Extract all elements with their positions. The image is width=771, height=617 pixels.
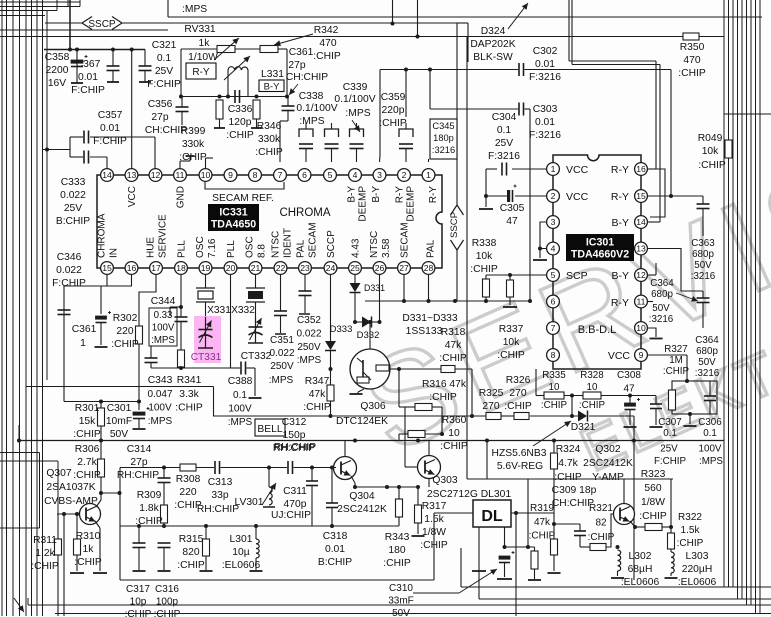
capacitor C305 electrolytic <box>515 195 547 197</box>
svg-text::CHIP: :CHIP <box>379 118 407 129</box>
svg-text:Q302: Q302 <box>595 444 620 455</box>
resistor R346 <box>253 100 260 119</box>
svg-text::CHIP: :CHIP <box>639 511 667 522</box>
svg-text:16: 16 <box>636 164 646 174</box>
crystal X331 <box>205 275 207 289</box>
svg-text:L303: L303 <box>686 551 709 562</box>
svg-text:1: 1 <box>551 164 556 174</box>
svg-text:R347: R347 <box>305 376 330 387</box>
capacitor C317 <box>138 526 140 543</box>
capacitor C316 <box>163 526 165 543</box>
IC301 label box <box>566 234 634 261</box>
main horizontal wire y440 <box>19 440 724 442</box>
svg-text:C301: C301 <box>107 403 132 414</box>
svg-text:50V: 50V <box>694 260 712 271</box>
thick vertical into C358 rail <box>69 0 71 50</box>
variable inductor L331 <box>227 70 229 97</box>
pin3-pin4 strap with ground <box>540 222 547 249</box>
corner at pin10 <box>205 158 207 169</box>
svg-text:C364: C364 <box>650 278 674 289</box>
svg-text:3.58: 3.58 <box>381 238 392 258</box>
svg-text:100V: 100V <box>699 444 722 455</box>
svg-text:26: 26 <box>375 263 385 273</box>
svg-text:100V: 100V <box>228 403 252 414</box>
svg-text:R321: R321 <box>589 503 613 514</box>
svg-text:8.8: 8.8 <box>257 244 268 258</box>
diode D332 <box>379 275 381 323</box>
svg-text:50V: 50V <box>110 429 128 440</box>
svg-text:R319: R319 <box>530 503 554 514</box>
svg-text:OSC: OSC <box>195 236 206 258</box>
capacitor C307 <box>655 396 657 405</box>
inductor L303 <box>670 549 672 552</box>
svg-text:R335: R335 <box>542 370 566 381</box>
svg-text:14: 14 <box>102 170 112 180</box>
svg-text:C358: C358 <box>45 52 70 63</box>
diode D333 <box>330 275 332 342</box>
svg-text:2200: 2200 <box>46 65 69 76</box>
svg-text::CHIP: :CHIP <box>383 558 411 569</box>
svg-text:L301: L301 <box>230 534 253 545</box>
svg-text:F:3216: F:3216 <box>529 72 561 83</box>
svg-text::CHIP: :CHIP <box>439 353 467 364</box>
svg-text:C321: C321 <box>152 40 177 51</box>
svg-text:C343: C343 <box>148 375 173 386</box>
svg-text:27p: 27p <box>130 457 147 468</box>
svg-text:50V: 50V <box>392 608 410 617</box>
svg-text:13: 13 <box>127 170 137 180</box>
svg-text:0.022: 0.022 <box>296 328 321 339</box>
svg-text:B.B-D.L: B.B-D.L <box>578 324 617 336</box>
resistor R360 <box>440 432 444 436</box>
svg-text:1: 1 <box>80 338 86 349</box>
wire y526 <box>120 525 399 527</box>
svg-text:C363: C363 <box>691 238 715 249</box>
svg-text:0.1: 0.1 <box>497 125 512 136</box>
svg-text:0.1/100V: 0.1/100V <box>334 94 375 105</box>
svg-text::CHIP: :CHIP <box>677 538 704 549</box>
svg-text::CHIP: :CHIP <box>588 532 615 543</box>
capacitor C352 <box>304 275 306 292</box>
C359 vertical line <box>379 70 381 156</box>
svg-text::CHIP: :CHIP <box>111 339 139 350</box>
resistor R306 <box>100 441 102 460</box>
svg-text:Q307: Q307 <box>46 468 71 479</box>
DL grounds <box>478 527 480 599</box>
svg-text::CHIP: :CHIP <box>73 470 101 481</box>
svg-text:R324: R324 <box>556 444 581 455</box>
svg-text:DEEMP: DEEMP <box>406 186 417 222</box>
svg-text:C309 18p: C309 18p <box>552 485 597 496</box>
pin17 wire through R302 <box>139 275 156 327</box>
wire y487 <box>355 486 418 488</box>
wire y301 <box>365 300 530 302</box>
boxed label R-Y <box>186 63 216 79</box>
svg-text:R328: R328 <box>580 370 604 381</box>
pin16 to pin14 wire <box>648 169 666 217</box>
svg-text:15: 15 <box>102 263 112 273</box>
svg-text:5.6V-REG: 5.6V-REG <box>497 461 543 472</box>
svg-text:SECAM REF.: SECAM REF. <box>212 193 274 204</box>
svg-text:0.01: 0.01 <box>325 544 345 555</box>
svg-text:VCC: VCC <box>608 350 631 362</box>
capacitor C357 <box>45 148 49 152</box>
svg-text:R360: R360 <box>442 415 467 426</box>
right bus wires <box>723 0 725 587</box>
cap right of C311 <box>311 468 313 482</box>
wire y386.5 <box>26 386 214 388</box>
svg-text::CHIP: :CHIP <box>663 366 690 377</box>
pin16 wire to C361 <box>101 275 132 315</box>
svg-text:R327: R327 <box>664 344 687 355</box>
svg-text:Q304: Q304 <box>349 491 374 502</box>
svg-text:25V: 25V <box>660 444 678 455</box>
svg-text:X331: X331 <box>207 305 231 316</box>
svg-text::EL0606: :EL0606 <box>621 577 660 588</box>
svg-text:RV331: RV331 <box>184 24 216 35</box>
svg-text:SECAM: SECAM <box>400 222 411 258</box>
svg-text:CT331: CT331 <box>191 352 222 363</box>
svg-text:R301: R301 <box>75 403 100 414</box>
magenta highlight CT331 <box>194 316 221 363</box>
capacitor C358 <box>76 50 78 61</box>
svg-text:10mF: 10mF <box>106 416 132 427</box>
bottom edge of box <box>120 579 434 581</box>
svg-text:C317: C317 <box>126 584 150 595</box>
svg-text:2: 2 <box>402 170 407 180</box>
svg-text:X332: X332 <box>231 305 255 316</box>
svg-text:R337: R337 <box>499 324 524 335</box>
svg-text:17: 17 <box>151 263 161 273</box>
capacitor C361 electrolytic <box>96 316 107 319</box>
svg-text::CHIP: :CHIP <box>497 350 525 361</box>
watermark SERVIS ELEKTRONI <box>342 130 771 484</box>
svg-text:RH:CHIP: RH:CHIP <box>273 443 315 454</box>
svg-text:10: 10 <box>201 170 211 180</box>
capacitor C388 <box>231 367 241 369</box>
svg-text:R315: R315 <box>179 534 204 545</box>
svg-text:28: 28 <box>424 263 434 273</box>
emitter resistor <box>635 526 645 528</box>
svg-text:SCP: SCP <box>566 270 588 282</box>
capacitor C333 <box>70 156 83 158</box>
svg-text::CHIP: :CHIP <box>255 147 283 158</box>
diode D331 <box>354 275 356 284</box>
svg-text:D332: D332 <box>357 330 380 341</box>
resistor R301 <box>100 402 102 409</box>
svg-text:16V: 16V <box>48 78 66 89</box>
pin15 wire down-left <box>64 275 107 402</box>
trimmer RV331 <box>181 48 217 50</box>
svg-text:470: 470 <box>683 55 700 66</box>
svg-text:CT332: CT332 <box>241 351 272 362</box>
svg-text:16: 16 <box>127 263 137 273</box>
svg-text:C338: C338 <box>299 91 324 102</box>
svg-text:R-Y: R-Y <box>192 67 210 78</box>
svg-text:NTSC: NTSC <box>369 231 380 258</box>
svg-text::MPS: :MPS <box>269 375 294 386</box>
IC331 label box <box>208 204 259 231</box>
svg-text:OSC: OSC <box>245 236 256 258</box>
svg-text:CH:CHIP: CH:CHIP <box>286 72 328 83</box>
svg-text:R342: R342 <box>314 25 339 36</box>
svg-text:180p: 180p <box>433 133 454 143</box>
svg-text::CHIP: :CHIP <box>177 560 205 571</box>
resistor R316 <box>398 369 400 407</box>
svg-text:B-Y: B-Y <box>371 186 382 203</box>
pin10 ground <box>648 328 657 337</box>
svg-text:PLL: PLL <box>177 240 188 258</box>
svg-text::CHIP: :CHIP <box>554 472 582 483</box>
svg-text:F:3216: F:3216 <box>529 130 561 141</box>
svg-text:4: 4 <box>353 170 358 180</box>
capacitor C318 <box>331 468 333 503</box>
R338 network at SCP pin5 <box>486 274 547 276</box>
svg-text:25V: 25V <box>64 203 82 214</box>
resistor R309 <box>161 505 168 523</box>
svg-text:10: 10 <box>549 382 560 393</box>
resistor R318 <box>441 366 455 373</box>
svg-text:D333: D333 <box>330 324 353 335</box>
svg-text:22: 22 <box>276 263 286 273</box>
Q307 base wire <box>57 513 80 515</box>
svg-text:680p: 680p <box>696 346 718 357</box>
box left edge <box>119 468 121 581</box>
wire vcc rail y49.5 <box>44 49 145 51</box>
svg-text::CHIP: :CHIP <box>440 441 468 452</box>
svg-text:330k: 330k <box>258 134 281 145</box>
svg-text:0.1: 0.1 <box>703 428 717 439</box>
svg-text:18: 18 <box>176 263 186 273</box>
svg-text:C351: C351 <box>270 335 294 346</box>
wire pin27 pin28 down <box>403 275 405 302</box>
capacitor C301 electrolytic <box>138 402 140 411</box>
svg-text::EL0606: :EL0606 <box>678 577 717 588</box>
svg-text:5: 5 <box>328 170 333 180</box>
capacitor C302 <box>380 69 518 71</box>
svg-text:1.2k: 1.2k <box>35 548 55 559</box>
svg-text:220: 220 <box>179 487 196 498</box>
svg-text:PLL: PLL <box>226 240 237 258</box>
svg-text:F:CHIP: F:CHIP <box>52 278 86 289</box>
bottom bus lines <box>460 548 462 587</box>
pin18 wire and C344 <box>180 275 182 308</box>
resistor R343 <box>398 487 400 499</box>
SSCP flag <box>45 22 82 24</box>
svg-text::3216: :3216 <box>695 368 720 379</box>
wire VCC down to pin13 <box>131 50 133 169</box>
svg-text::MPS: :MPS <box>345 108 370 119</box>
svg-text:Q306: Q306 <box>360 401 385 412</box>
svg-text:R325: R325 <box>479 388 504 399</box>
svg-text:R322: R322 <box>678 512 702 523</box>
svg-text:180: 180 <box>388 545 405 556</box>
svg-text:8: 8 <box>253 170 258 180</box>
svg-text:680p: 680p <box>651 289 673 300</box>
resistor R350 <box>683 33 699 40</box>
wire long horiz y36.5 with R350 <box>0 36 683 38</box>
capacitor C364 <box>702 291 704 298</box>
svg-text:47: 47 <box>506 216 518 227</box>
svg-text:C336: C336 <box>228 104 253 115</box>
capacitor C338 <box>287 97 289 107</box>
svg-text::3216: :3216 <box>691 271 716 282</box>
svg-text:13: 13 <box>636 244 646 254</box>
svg-text:25: 25 <box>350 263 360 273</box>
svg-text:0.01: 0.01 <box>535 117 555 128</box>
R327 / C306 box <box>672 381 717 414</box>
svg-text:PAL: PAL <box>426 239 437 258</box>
svg-text:D331: D331 <box>364 283 385 293</box>
svg-text:10k: 10k <box>503 337 520 348</box>
transistor Q307 <box>80 504 101 525</box>
svg-text::CHIP: :CHIP <box>504 401 532 412</box>
svg-text:L331: L331 <box>261 69 284 80</box>
svg-text:2.7k: 2.7k <box>77 457 97 468</box>
svg-text:F:3216: F:3216 <box>488 151 520 162</box>
svg-text:SSCP: SSCP <box>449 212 460 238</box>
R335 R328 wire <box>536 395 544 397</box>
capacitor C343 <box>150 346 152 358</box>
resistor R337 <box>509 275 511 280</box>
svg-text:7.16: 7.16 <box>207 238 218 258</box>
svg-text:0.047: 0.047 <box>147 389 172 400</box>
svg-text:RH:CHIP: RH:CHIP <box>117 470 159 481</box>
svg-text:RH:CHIP: RH:CHIP <box>197 504 239 515</box>
svg-text:C345: C345 <box>432 121 454 131</box>
svg-text:VCC: VCC <box>127 186 138 207</box>
capacitor C303 <box>428 68 432 72</box>
wire y479 <box>467 478 673 480</box>
svg-text:1/10W: 1/10W <box>188 52 218 63</box>
svg-text:560: 560 <box>644 483 661 494</box>
resistor R399 <box>216 100 223 119</box>
svg-text:820: 820 <box>182 547 199 558</box>
capacitor C351 <box>280 275 282 312</box>
svg-text:L302: L302 <box>629 551 652 562</box>
svg-text:2SC2412K: 2SC2412K <box>583 458 633 469</box>
svg-text:VCC: VCC <box>566 164 589 176</box>
svg-text:PAL: PAL <box>296 239 307 258</box>
svg-text:270: 270 <box>482 401 499 412</box>
svg-text:330k: 330k <box>182 139 205 150</box>
svg-text:D324: D324 <box>481 26 506 37</box>
svg-text:47k: 47k <box>309 389 326 400</box>
svg-text::CHIP: :CHIP <box>678 68 706 79</box>
svg-text:F:CHIP: F:CHIP <box>93 136 127 147</box>
svg-text::CHIP: :CHIP <box>175 403 203 414</box>
svg-text::MPS: :MPS <box>151 335 175 346</box>
svg-text:R346: R346 <box>257 121 282 132</box>
svg-text::CHIP: :CHIP <box>698 160 726 171</box>
svg-text:R338: R338 <box>472 238 497 249</box>
svg-text:10k: 10k <box>476 251 493 262</box>
resistor R324 <box>553 441 555 454</box>
main wire y416 <box>213 415 486 417</box>
capacitor C308 electrolytic <box>629 396 631 404</box>
svg-text:33p: 33p <box>211 490 228 501</box>
svg-text:C339: C339 <box>343 82 368 93</box>
svg-text:7: 7 <box>278 170 283 180</box>
svg-text:7: 7 <box>551 323 556 333</box>
svg-text:50V: 50V <box>698 357 716 368</box>
svg-text:IC331: IC331 <box>219 207 247 219</box>
svg-text:R343: R343 <box>385 532 410 543</box>
svg-text:NTSC: NTSC <box>271 231 282 258</box>
svg-text:1k: 1k <box>83 544 95 555</box>
svg-text::3216: :3216 <box>432 145 455 155</box>
pin13 wire <box>648 249 704 292</box>
svg-text:220p: 220p <box>382 105 405 116</box>
svg-text:SERVICE: SERVICE <box>158 214 169 258</box>
svg-text:11: 11 <box>637 297 646 307</box>
svg-text::MPS: :MPS <box>299 116 324 127</box>
svg-text:19: 19 <box>201 263 211 273</box>
DL301 box <box>434 512 473 514</box>
Q307 collector down <box>95 521 100 528</box>
svg-text:27p: 27p <box>151 112 168 123</box>
svg-text:4.43: 4.43 <box>351 238 362 258</box>
svg-text:25V: 25V <box>495 138 513 149</box>
svg-text:680p: 680p <box>692 249 714 260</box>
svg-text:4: 4 <box>551 244 556 254</box>
svg-text:C361: C361 <box>72 324 97 335</box>
svg-text:0.022: 0.022 <box>56 265 82 276</box>
svg-text:IDENT: IDENT <box>283 228 294 258</box>
resistor R322 <box>668 533 675 549</box>
svg-text:R302: R302 <box>113 313 138 324</box>
R049 resistor on bus <box>725 140 732 158</box>
svg-text:SCCP: SCCP <box>326 230 337 258</box>
svg-text::MPS: :MPS <box>182 4 207 15</box>
IC301 body <box>553 155 641 369</box>
svg-text:C305: C305 <box>500 203 525 214</box>
svg-text:C302: C302 <box>533 46 558 57</box>
svg-text:0.1: 0.1 <box>157 53 172 64</box>
left bus wires <box>1 0 3 616</box>
svg-text:DAP202K: DAP202K <box>470 39 515 50</box>
svg-text:R309: R309 <box>137 490 162 501</box>
svg-text:24: 24 <box>326 263 336 273</box>
C309 cap and R321 <box>554 523 580 525</box>
svg-text:2SC2412K: 2SC2412K <box>337 504 387 515</box>
capacitor C344 <box>180 307 182 317</box>
svg-text:20: 20 <box>226 263 236 273</box>
svg-text:C388: C388 <box>228 376 253 387</box>
svg-text::CHIP: :CHIP <box>226 130 254 141</box>
deemp network pin6 <box>305 123 307 129</box>
svg-text:C313: C313 <box>208 477 233 488</box>
svg-text::CHIP: :CHIP <box>73 429 101 440</box>
svg-text:C359: C359 <box>381 92 406 103</box>
trimmer CT332 <box>255 317 257 343</box>
svg-text:4.7k: 4.7k <box>558 458 578 469</box>
svg-text:D321: D321 <box>571 422 596 433</box>
svg-text:0.1: 0.1 <box>663 428 677 439</box>
resistor R315 <box>205 526 207 539</box>
svg-text:C357: C357 <box>98 110 123 121</box>
svg-text:B-Y: B-Y <box>347 186 358 203</box>
svg-text:Y-AMP: Y-AMP <box>592 472 624 483</box>
svg-text::CHIP: :CHIP <box>303 402 331 413</box>
svg-text:1: 1 <box>426 170 431 180</box>
svg-text:C310: C310 <box>389 583 413 594</box>
svg-text::CHIP: :CHIP <box>579 400 606 411</box>
svg-text::MPS: :MPS <box>297 355 322 366</box>
svg-text:47k: 47k <box>445 340 462 351</box>
svg-text:R350: R350 <box>680 42 705 53</box>
capacitor C321 <box>144 50 146 67</box>
